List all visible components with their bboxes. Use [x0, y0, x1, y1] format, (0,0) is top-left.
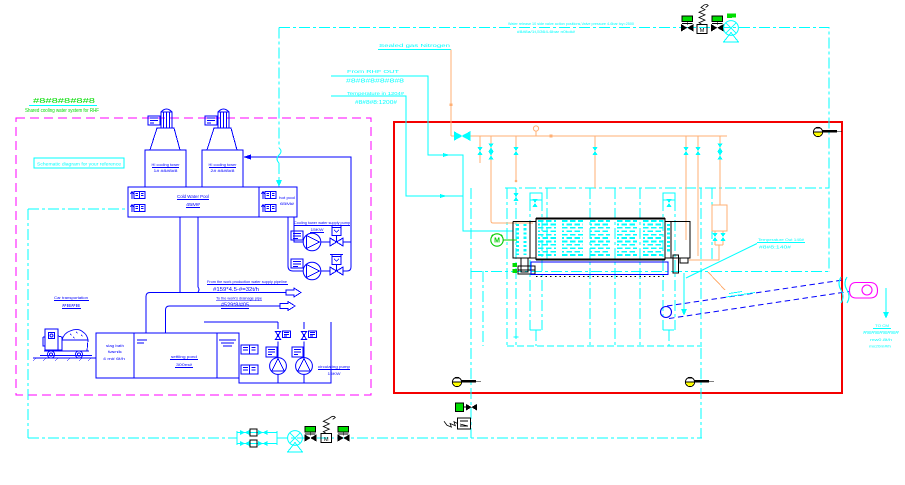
svg-text:TO CM: TO CM — [875, 323, 889, 328]
svg-text:M: M — [494, 238, 500, 245]
svg-text:300m#: 300m# — [176, 363, 193, 367]
svg-text:15KW: 15KW — [328, 372, 342, 376]
svg-text:Temperature in 1204#: Temperature in 1204# — [347, 91, 405, 96]
svg-text:settling pond: settling pond — [171, 355, 197, 359]
svg-text:From RHF OUT: From RHF OUT — [347, 69, 399, 74]
svg-text:circulating pump: circulating pump — [318, 365, 350, 369]
svg-text:M: M — [700, 28, 705, 34]
svg-text:HI cooling tower: HI cooling tower — [209, 163, 238, 167]
svg-text:2# #8#8#8: 2# #8#8#8 — [211, 169, 235, 173]
svg-text:tank: tank — [108, 350, 122, 354]
svg-text:#8#8: #8#8 — [62, 303, 81, 308]
svg-text:slag bath: slag bath — [106, 344, 124, 348]
svg-text:#8#8a/1t,5364-6bar n0tc##: #8#8a/1t,5364-6bar n0tc## — [517, 29, 576, 34]
svg-text:hot pool: hot pool — [279, 196, 295, 200]
svg-text:Sealed gas Nitrogen: Sealed gas Nitrogen — [379, 43, 451, 48]
svg-text:Car transportation: Car transportation — [54, 295, 88, 300]
svg-text:Cold Water Pool: Cold Water Pool — [177, 194, 209, 199]
svg-text:15KW: 15KW — [311, 227, 324, 232]
svg-text:#8#8#8#8#: #8#8#8#8# — [863, 330, 900, 335]
svg-text:#8#8#8#8#8: #8#8#8#8#8 — [33, 96, 95, 105]
svg-text:mw0.8t/h: mw0.8t/h — [870, 337, 892, 342]
svg-text:To the work's drainage pipe: To the work's drainage pipe — [216, 296, 263, 301]
svg-text:#159*4.5-#=32t/h: #159*4.5-#=32t/h — [213, 287, 259, 293]
svg-text:Temperature Out 140#: Temperature Out 140# — [758, 237, 805, 242]
svg-text:#8#8#8#8#8#8: #8#8#8#8#8#8 — [346, 79, 404, 85]
svg-text:#529*8/#05: #529*8/#05 — [221, 303, 249, 309]
svg-text:#8#8#8:1200#: #8#8#8:1200# — [355, 100, 397, 106]
svg-text:HI cooling tower: HI cooling tower — [152, 163, 181, 167]
svg-text:1# #8#8#8: 1# #8#8#8 — [154, 169, 178, 173]
svg-text:Schematic diagram for your ref: Schematic diagram for your reference — [37, 162, 121, 168]
svg-text:45M#: 45M# — [186, 202, 201, 207]
svg-text:Shared cooling water system fo: Shared cooling water system for RHF — [25, 108, 99, 114]
svg-text:mx20m#/h: mx20m#/h — [869, 344, 891, 349]
svg-text:65M#: 65M# — [280, 202, 295, 206]
svg-text:Cooling tower water supply pum: Cooling tower water supply pump — [294, 220, 351, 225]
svg-text:M: M — [324, 437, 329, 443]
svg-text:4 m# 6t/h: 4 m# 6t/h — [103, 357, 125, 361]
svg-text:#8#8:140#: #8#8:140# — [759, 245, 792, 250]
svg-text:Water release 10 side valve ac: Water release 10 side valve action posit… — [508, 21, 635, 26]
svg-text:From the work production water: From the work production water supply pi… — [207, 279, 288, 284]
